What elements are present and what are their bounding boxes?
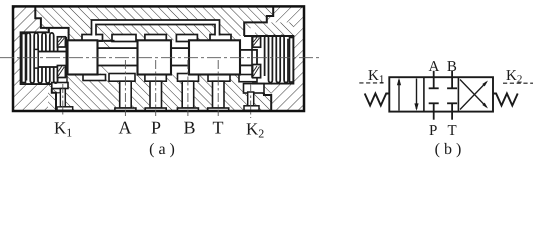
port centerline P: [155, 60, 157, 116]
right spring washer: [290, 38, 294, 83]
svg-text:K2: K2: [506, 68, 522, 86]
port centerline K2: [250, 84, 252, 118]
right end cap reverse hatch: [267, 6, 304, 111]
top port groove above P: [145, 35, 166, 42]
spool land 3: [189, 40, 240, 74]
right cell cross arrow 1: [460, 82, 487, 110]
spool neck rod 2: [171, 48, 189, 65]
port centerline T: [217, 60, 219, 116]
spool land 2: [138, 40, 172, 74]
right pilot spring: [493, 94, 518, 106]
port stem A: [120, 81, 132, 108]
bore gap between land1 and land2: [98, 40, 138, 74]
pilot foot K1: [57, 107, 73, 111]
bore top web line: [99, 40, 115, 42]
bottom groove under land1: [83, 75, 106, 81]
right cell cross arrow 2: [460, 80, 487, 108]
port stem B: [182, 81, 194, 108]
left pilot spring: [365, 94, 390, 106]
left bottom step outline: [52, 89, 56, 111]
bottom groove K1 side: [52, 83, 68, 89]
right bottom step outline: [264, 93, 271, 110]
port foot B: [177, 108, 198, 111]
cell divider 1: [423, 77, 425, 111]
right spring coils: [265, 35, 288, 82]
spool rod left end: [37, 52, 68, 68]
K1 throat: [58, 77, 68, 85]
bottom groove K2: [244, 84, 265, 93]
middle cell blocked port T: [451, 103, 453, 119]
left spring chamber cavity: [21, 32, 68, 84]
valve body hatched block: [13, 6, 304, 111]
port centerline A: [124, 60, 126, 116]
middle cell blocked port P: [433, 103, 435, 119]
bore gap between land2 and land3: [171, 40, 189, 74]
port stem P: [150, 81, 162, 108]
bottom groove P: [145, 74, 166, 82]
left chamber outline: [21, 28, 52, 84]
right end cap step outline: [244, 6, 273, 36]
port centerline B: [187, 60, 189, 116]
cell divider 2: [457, 77, 459, 111]
spool land 1: [68, 40, 98, 74]
svg-text:B: B: [184, 118, 196, 138]
svg-text:( b ): ( b ): [435, 141, 462, 158]
bottom groove under land3: [239, 75, 257, 82]
svg-text:B: B: [447, 59, 457, 75]
middle cell blocked port A: [433, 71, 435, 89]
svg-text:( a ): ( a ): [149, 141, 175, 158]
body outline: [13, 6, 304, 111]
svg-text:K1: K1: [368, 68, 384, 86]
right spring seat cup: [252, 37, 261, 78]
web wedges over A groove: [104, 40, 112, 48]
svg-text:K1: K1: [54, 119, 72, 140]
port foot T: [208, 108, 229, 111]
right chamber outline: [244, 36, 293, 84]
svg-text:A: A: [429, 59, 440, 75]
left pilot dashed line: [359, 82, 383, 84]
port foot A: [115, 108, 136, 111]
spool neck rod 1: [98, 48, 138, 65]
symbol box: [389, 77, 493, 111]
pilot pocket K1: [56, 93, 60, 107]
top port groove c1: [82, 35, 103, 42]
right pilot dashed line: [503, 82, 533, 84]
pilot stem K2: [248, 92, 254, 106]
svg-text:T: T: [213, 118, 224, 138]
middle cell blocked port B: [451, 71, 453, 89]
left end cap step outline: [35, 6, 68, 40]
svg-text:K2: K2: [246, 120, 264, 141]
left cell up arrow: [398, 80, 400, 111]
svg-text:P: P: [429, 123, 437, 139]
svg-text:P: P: [151, 118, 161, 138]
top port groove above A: [112, 35, 136, 42]
top port groove above B: [176, 35, 197, 42]
left spring washer: [22, 34, 26, 83]
pilot channel on top: [92, 20, 220, 36]
left cell down arrow: [416, 79, 418, 110]
bottom groove B: [178, 74, 199, 82]
spool rod right end: [240, 50, 257, 66]
top port groove above T: [210, 35, 231, 42]
left spring coils: [26, 33, 57, 83]
left spring seat cup: [57, 37, 66, 78]
main horizontal centerline: [0, 57, 319, 59]
spring plate left: [34, 49, 38, 68]
port stem T: [213, 81, 225, 108]
svg-text:A: A: [119, 118, 132, 138]
left end cap reverse hatch: [13, 6, 48, 111]
port centerline K1: [62, 84, 64, 116]
svg-text:T: T: [448, 123, 457, 139]
pilot stem K1: [60, 89, 65, 107]
pilot foot K2: [244, 106, 259, 111]
right spring chamber cavity: [240, 36, 293, 84]
bottom groove A: [109, 74, 135, 82]
port foot P: [145, 108, 166, 111]
bottom groove T: [208, 74, 230, 82]
